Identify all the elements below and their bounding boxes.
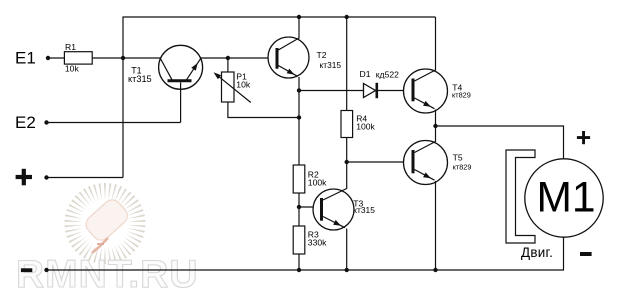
transistor T1 kt315 bbox=[128, 45, 203, 122]
wire T1 emitter to P1 node bbox=[201, 56, 230, 60]
svg-text:RMNT.RU: RMNT.RU bbox=[16, 253, 198, 296]
motor frame bracket bbox=[506, 150, 535, 243]
svg-text:10k: 10k bbox=[65, 64, 80, 74]
wire R2-R3 node to T3 base bbox=[299, 206, 320, 208]
svg-text:Двиг.: Двиг. bbox=[521, 245, 553, 260]
svg-text:кт315: кт315 bbox=[320, 60, 342, 70]
svg-text:10k: 10k bbox=[236, 80, 251, 90]
wire top supply rail bbox=[123, 17, 436, 178]
motor minus mark bbox=[580, 252, 592, 256]
input terminal E1 bbox=[15, 49, 50, 68]
wire node to T2 base bbox=[228, 57, 276, 59]
svg-text:100k: 100k bbox=[356, 121, 375, 131]
wire R1 to riser node bbox=[92, 56, 125, 60]
resistor R2 100k bbox=[293, 165, 327, 226]
wire E1 to R1 bbox=[48, 57, 64, 59]
wire plus terminal to riser bbox=[44, 175, 123, 179]
diode D1 kd522 bbox=[360, 69, 400, 98]
svg-text:кт829: кт829 bbox=[452, 91, 471, 100]
svg-text:100k: 100k bbox=[308, 178, 327, 188]
svg-text:D1: D1 bbox=[360, 69, 371, 79]
svg-text:E2: E2 bbox=[15, 113, 36, 132]
minus supply terminal bbox=[21, 268, 49, 272]
svg-text:M1: M1 bbox=[536, 175, 595, 222]
motor plus mark bbox=[577, 131, 590, 144]
wire T2 emitter node to D1 anode bbox=[299, 90, 364, 92]
svg-text:T5: T5 bbox=[453, 153, 463, 163]
svg-text:кд522: кд522 bbox=[376, 69, 399, 79]
svg-text:T2: T2 bbox=[317, 50, 327, 60]
plus supply terminal bbox=[16, 169, 32, 186]
svg-text:330k: 330k bbox=[308, 238, 327, 248]
potentiometer P1 10k bbox=[214, 58, 302, 120]
transistor T2 kt315 bbox=[268, 15, 341, 165]
bottom supply rail bbox=[47, 237, 564, 270]
transistor T5 kt829 bbox=[404, 126, 472, 272]
svg-text:R1: R1 bbox=[65, 42, 76, 52]
wire node to T1 collector bbox=[123, 57, 160, 59]
svg-text:E1: E1 bbox=[15, 49, 36, 68]
svg-text:кт315: кт315 bbox=[353, 205, 375, 215]
resistor R1 10k bbox=[64, 42, 92, 74]
input terminal E2 bbox=[15, 113, 49, 132]
svg-text:кт829: кт829 bbox=[453, 163, 472, 172]
resistor R4 100k bbox=[341, 15, 376, 164]
transistor T3 kt315 bbox=[313, 162, 375, 272]
wire T4/T5 node to motor plus bbox=[436, 126, 564, 159]
svg-text:кт315: кт315 bbox=[128, 74, 152, 84]
wire E2 to T1 base bbox=[47, 122, 181, 124]
resistor R3 330k bbox=[293, 226, 327, 272]
wire R4 node to T5 base bbox=[347, 161, 412, 163]
motor M1 bbox=[525, 159, 603, 237]
wire D1 cathode to T4 base bbox=[378, 90, 412, 92]
transistor T4 kt829 bbox=[404, 17, 471, 128]
